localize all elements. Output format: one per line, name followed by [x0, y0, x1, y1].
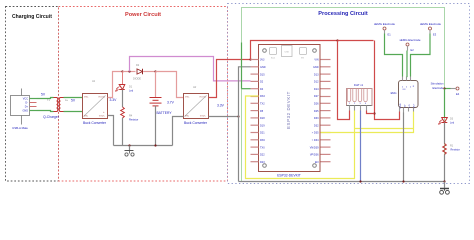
- wire LED to resistor R4: [122, 90, 124, 108]
- wire E3 to EMG RL: [411, 34, 431, 77]
- svg-text:D23: D23: [260, 161, 265, 164]
- svg-text:ESP32 DEVKIT: ESP32 DEVKIT: [286, 91, 291, 129]
- wire E4 to LED D3: [445, 88, 451, 90]
- svg-text:VOUT+: VOUT+: [98, 97, 106, 99]
- processing circuit box: [242, 8, 445, 182]
- wire rail to diode: [123, 71, 136, 73]
- charging circuit box: [6, 7, 59, 182]
- svg-text:LO: LO: [409, 104, 411, 107]
- svg-text:GND: GND: [22, 110, 28, 113]
- svg-text:D21: D21: [260, 132, 265, 135]
- svg-text:EMG: EMG: [391, 91, 397, 95]
- svg-text:Power Circuit: Power Circuit: [125, 12, 161, 18]
- svg-text:TX0: TX0: [260, 146, 265, 149]
- ground symbol right: [440, 182, 450, 195]
- svg-text:Charging Circuit: Charging Circuit: [12, 14, 52, 20]
- svg-text:VIN-: VIN-: [84, 116, 88, 118]
- wire coil to U1 VIN-: [64, 111, 83, 113]
- svg-text:Q-Charger: Q-Charger: [43, 115, 60, 119]
- svg-text:D18: D18: [260, 117, 265, 120]
- wire coil to U1 VIN+: [64, 97, 83, 99]
- wire E2 to EMG LA: [406, 51, 409, 77]
- ground bus bottom: [239, 181, 445, 183]
- wire red riser right to EMG VCC: [375, 41, 400, 120]
- svg-text:GND: GND: [260, 66, 266, 69]
- svg-text:D33: D33: [314, 117, 319, 120]
- electrode E1: [374, 22, 395, 37]
- microcontroller U3 ESP32-DEVKIT: [259, 45, 321, 178]
- buck converter U1: [83, 80, 108, 125]
- wire 3.3V rail top run: [251, 41, 338, 60]
- svg-text:Led: Led: [450, 122, 455, 125]
- svg-text:D-: D-: [25, 102, 28, 105]
- svg-text:Boot: Boot: [271, 57, 276, 60]
- svg-text:3V3: 3V3: [260, 59, 265, 62]
- wire branch to connector pin4: [367, 111, 375, 114]
- wire E4 net down: [444, 89, 446, 118]
- wire U1 VOUT- to ground bus: [108, 116, 114, 146]
- wire diode to battery junction: [144, 71, 156, 73]
- svg-text:VOUT+: VOUT+: [199, 97, 207, 99]
- svg-text:sEMG Electrode: sEMG Electrode: [399, 38, 420, 42]
- wire E1 to EMG RA: [385, 34, 403, 77]
- wire yellow D35 row to EMG pin: [321, 112, 414, 133]
- diode D2: [133, 64, 143, 81]
- junction at battery branch: [154, 70, 156, 72]
- svg-text:D13: D13: [314, 73, 319, 76]
- junction battery minus: [154, 144, 156, 146]
- svg-text:USB: USB: [285, 52, 290, 54]
- svg-text:DolT v1: DolT v1: [354, 83, 364, 87]
- ESP32 right pin stubs: [321, 60, 331, 162]
- svg-text:VIN-: VIN-: [185, 116, 189, 118]
- wire USB VCC to coil: [37, 98, 54, 99]
- svg-text:sEMG Electrode: sEMG Electrode: [374, 22, 395, 26]
- wire green to ESP32 D4: [242, 43, 251, 89]
- svg-text:3.7V: 3.7V: [167, 101, 175, 105]
- svg-text:DIODE: DIODE: [133, 78, 141, 81]
- svg-text:D32: D32: [314, 124, 319, 127]
- svg-text:VOUT-: VOUT-: [200, 116, 206, 118]
- transformer T1 Qi charger coils: [43, 98, 69, 120]
- wire yellow RX2 to bottom run: [246, 96, 355, 179]
- svg-text:VN/D39: VN/D39: [310, 146, 319, 149]
- svg-text:Resistor: Resistor: [129, 119, 138, 122]
- LED D3: [439, 118, 455, 125]
- svg-text:3.3V: 3.3V: [110, 98, 118, 102]
- ESP32 left pin labels: [260, 59, 266, 164]
- buck converter U2: [184, 86, 209, 125]
- svg-text:sEMG Electrode: sEMG Electrode: [420, 22, 441, 26]
- svg-text:D19: D19: [260, 124, 265, 127]
- ESP32 left pin stubs: [251, 60, 259, 162]
- wire R4 to ground bus: [122, 118, 124, 146]
- svg-text:E3: E3: [433, 33, 437, 37]
- svg-text:USB-A Male: USB-A Male: [12, 126, 28, 130]
- wire USB GND to coil: [37, 111, 54, 112]
- svg-text:> D34: > D34: [312, 139, 319, 142]
- wire LED D3 to R1: [444, 123, 446, 144]
- EMG top pin stubs: [403, 77, 411, 81]
- pin stub GND: [30, 110, 37, 112]
- svg-text:VOUT-: VOUT-: [99, 116, 105, 118]
- svg-text:TX2: TX2: [260, 103, 265, 106]
- svg-text:VP/D36: VP/D36: [310, 154, 319, 157]
- resistor R1: [443, 144, 460, 155]
- svg-text:Led: Led: [129, 90, 134, 93]
- svg-text:D25: D25: [314, 110, 319, 113]
- svg-text:Buck Converter: Buck Converter: [184, 121, 208, 125]
- EMG sensor module U4: [391, 81, 418, 109]
- wire rail to EMG riser: [338, 40, 374, 42]
- power ground bus: [114, 145, 173, 147]
- EMG bottom pin stubs: [400, 108, 414, 113]
- wire ESP32 GND left down: [239, 67, 251, 182]
- wire net to ESP32 D2 (violet): [130, 57, 251, 81]
- junction 3.3V to pink branch: [128, 70, 130, 72]
- wire U2 VOUT+ to ESP32 3V3: [209, 60, 251, 98]
- svg-text:D14: D14: [314, 88, 319, 91]
- svg-text:D22: D22: [260, 154, 265, 157]
- svg-text:E2: E2: [411, 48, 415, 52]
- svg-text:EN: EN: [315, 161, 319, 164]
- connector J2 screw terminal: [347, 83, 373, 106]
- wire battery junction to U2 VIN+ riser: [156, 72, 184, 98]
- junction E4 net: [443, 87, 445, 89]
- resistor R4: [121, 107, 139, 122]
- power circuit box: [59, 7, 228, 182]
- battery BT1: [150, 72, 173, 116]
- wire battery minus to ground bus: [155, 106, 157, 146]
- svg-text:RX2: RX2: [260, 95, 265, 98]
- wire red riser to connector pin1: [338, 41, 350, 120]
- svg-text:D26: D26: [314, 103, 319, 106]
- svg-text:GND: GND: [313, 66, 319, 69]
- svg-text:VIN: VIN: [314, 59, 318, 62]
- pin stub D+: [30, 106, 37, 108]
- svg-text:3.3V: 3.3V: [217, 104, 225, 108]
- electrode E3: [420, 22, 441, 37]
- LED D1: [116, 85, 134, 93]
- wire yellow D32 to EMG OUT: [355, 128, 414, 130]
- svg-text:ESP32-DEVKIT: ESP32-DEVKIT: [277, 174, 301, 178]
- svg-text:D12: D12: [314, 81, 319, 84]
- ESP32 right pin labels: [310, 59, 319, 164]
- ground symbol power: [125, 146, 135, 157]
- wire 3.3V rail to LED D1: [122, 72, 124, 85]
- svg-text:BATTERY: BATTERY: [156, 111, 172, 115]
- svg-text:A+: A+: [65, 99, 69, 102]
- svg-text:D+: D+: [25, 106, 29, 109]
- junction ground right: [443, 180, 445, 182]
- outer body dotted box: [228, 4, 470, 184]
- wire U2 VOUT- to ESP32 GND net: [209, 116, 239, 118]
- wire R1 to ground bus: [444, 155, 446, 182]
- svg-text:> D35: > D35: [312, 132, 319, 135]
- svg-text:E4: E4: [456, 92, 460, 96]
- junction connector pin4 branch: [373, 112, 375, 114]
- junction at LED branch: [121, 70, 123, 72]
- svg-text:Resistor: Resistor: [451, 149, 460, 152]
- junction ground stub: [128, 144, 130, 146]
- svg-text:RX0: RX0: [260, 139, 265, 142]
- pin stub D-: [30, 102, 37, 104]
- junction pin3 wire at bus: [359, 180, 361, 182]
- connector J1 USB-A Male port: [11, 89, 30, 131]
- svg-text:GND: GND: [400, 103, 402, 108]
- junction 3V3: [249, 58, 251, 60]
- junction rail at connector riser: [336, 39, 338, 41]
- svg-text:Stimulation: Stimulation: [431, 82, 444, 86]
- electrode E2: [399, 38, 420, 52]
- svg-text:D27: D27: [314, 95, 319, 98]
- svg-text:Electrode: Electrode: [433, 86, 445, 90]
- svg-text:Processing Circuit: Processing Circuit: [318, 11, 368, 17]
- wire connector pin3 to ground bus: [360, 111, 362, 182]
- svg-text:Buck Converter: Buck Converter: [83, 121, 107, 125]
- junction GND net: [237, 115, 239, 117]
- svg-text:D15: D15: [260, 73, 265, 76]
- wire U1 VOUT+ riser to 3.3V rail: [108, 72, 123, 98]
- pin stub VCC: [30, 98, 37, 100]
- wire EMG GND to bus: [403, 113, 405, 182]
- junction EMG GND at bus: [402, 180, 404, 182]
- connector pin stubs: [350, 106, 367, 111]
- electrode E4 stimulation: [431, 82, 460, 97]
- wire U2 VIN- to ground bus: [173, 117, 184, 146]
- svg-text:VCC: VCC: [23, 98, 28, 101]
- svg-text:E1: E1: [388, 33, 392, 37]
